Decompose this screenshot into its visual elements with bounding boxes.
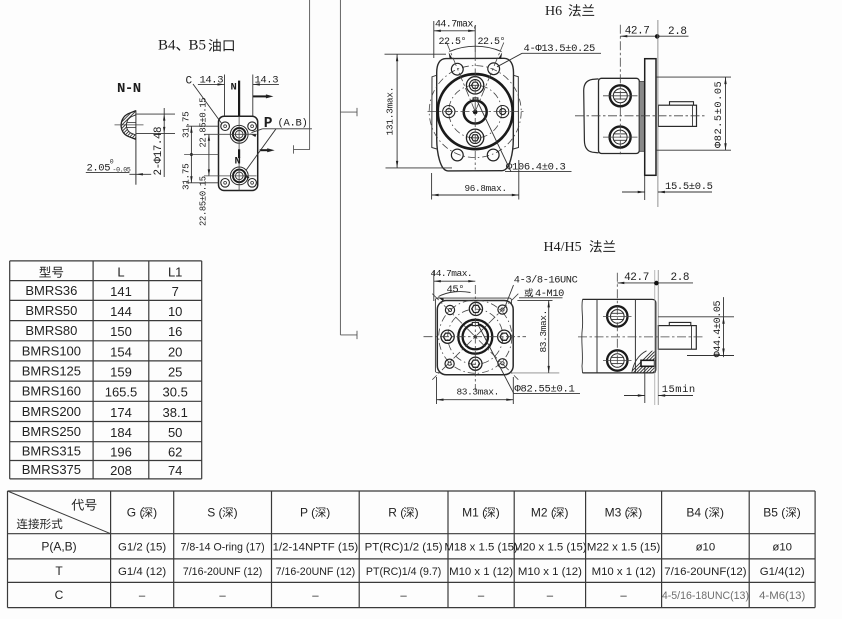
H6 side: top port bbox=[610, 85, 631, 106]
extension lines 14.3 bbox=[224, 75, 226, 117]
svg-text:–: – bbox=[620, 590, 627, 602]
H4/H5 right plug bbox=[498, 330, 511, 343]
svg-text:Φ82.5±0.05: Φ82.5±0.05 bbox=[713, 81, 725, 148]
svg-text:45°: 45° bbox=[447, 284, 465, 296]
svg-text:25: 25 bbox=[168, 365, 182, 380]
connector line V1 bbox=[294, 0, 310, 149]
section line N (middle) bbox=[238, 149, 240, 158]
svg-text:ø10: ø10 bbox=[772, 542, 792, 554]
H6 side: flange plate bbox=[645, 59, 656, 176]
H6 bolt hole 4 dia13.5 bbox=[487, 149, 499, 161]
svg-text:BMRS315: BMRS315 bbox=[22, 444, 81, 459]
H6 centerline vertical bbox=[474, 52, 476, 170]
svg-text:22.85±0.15: 22.85±0.15 bbox=[198, 98, 208, 148]
flange bolt hole top-left bbox=[221, 122, 230, 131]
H6 bolt circle (dashed) bbox=[429, 66, 521, 158]
svg-text:96.8max.: 96.8max. bbox=[465, 183, 507, 194]
V2 tick lower bbox=[340, 334, 357, 336]
svg-text:–: – bbox=[478, 590, 485, 602]
svg-text:208: 208 bbox=[110, 463, 132, 478]
N-N inner bore bbox=[126, 115, 135, 135]
H4/H5 corner bolt hole 2 bbox=[498, 305, 507, 314]
H6 22.5deg radial lines bbox=[447, 43, 476, 112]
svg-text:4-M6(13): 4-M6(13) bbox=[759, 590, 805, 602]
svg-text:(A.B): (A.B) bbox=[278, 118, 308, 130]
svg-text:10: 10 bbox=[168, 304, 182, 319]
svg-text:BMRS375: BMRS375 bbox=[22, 462, 81, 477]
leader to corner hole bbox=[505, 285, 514, 308]
svg-text:P (: P ( bbox=[300, 506, 315, 520]
svg-text:N-N: N-N bbox=[117, 81, 141, 97]
svg-text:): ) bbox=[326, 506, 330, 520]
H4/H5 centerlines bbox=[474, 285, 476, 391]
svg-text:15min: 15min bbox=[662, 384, 696, 396]
svg-text:2.8: 2.8 bbox=[671, 272, 690, 284]
H4/H5 side: centerline bbox=[578, 336, 704, 338]
H4/H5 shaft key bbox=[472, 322, 478, 325]
svg-text:141: 141 bbox=[110, 284, 132, 299]
H4/H5 gray ext lines bbox=[654, 270, 656, 405]
svg-text:20: 20 bbox=[168, 344, 182, 359]
H4/H5 pilot boss dia82.55 (bold) bbox=[458, 320, 492, 354]
section view arrow middle bbox=[260, 149, 269, 151]
svg-text:BMRS250: BMRS250 bbox=[22, 424, 81, 439]
svg-text:M1 (: M1 ( bbox=[462, 506, 486, 520]
leader to upper port bbox=[252, 129, 263, 133]
svg-text:31.75: 31.75 bbox=[181, 164, 192, 190]
svg-text:196: 196 bbox=[110, 445, 132, 460]
svg-text:): ) bbox=[638, 506, 642, 520]
port flange outline bbox=[219, 116, 258, 190]
svg-text:G (: G ( bbox=[127, 506, 144, 520]
H4/H5 side: shaft bbox=[658, 326, 696, 350]
svg-text:74: 74 bbox=[168, 463, 182, 478]
extension lines left bbox=[186, 125, 219, 127]
svg-text:G1/4(12): G1/4(12) bbox=[760, 566, 805, 578]
svg-text:N: N bbox=[230, 82, 236, 94]
svg-text:–: – bbox=[219, 590, 226, 602]
H6 bolt hole 1 dia13.5 bbox=[451, 63, 463, 75]
svg-text:M10 x 1 (12): M10 x 1 (12) bbox=[592, 566, 656, 578]
H4/H5 left plug bbox=[441, 330, 454, 343]
H6 side: horizontal centerline bbox=[575, 115, 707, 117]
dim line 22.85 chain bbox=[208, 134, 210, 176]
H6 bottom port plug bbox=[466, 129, 483, 146]
svg-text:M10 x 1 (12): M10 x 1 (12) bbox=[518, 566, 582, 578]
svg-text:H6: H6 bbox=[545, 4, 562, 19]
svg-text:38.1: 38.1 bbox=[163, 405, 188, 420]
H4/H5 side: shaft key bbox=[669, 322, 691, 325]
H6 extension line gray bbox=[657, 20, 659, 207]
H6 side: shaft key bbox=[670, 102, 694, 106]
svg-text:BMRS200: BMRS200 bbox=[22, 404, 81, 419]
H4/H5 side: bottom port bbox=[607, 350, 627, 370]
svg-text:): ) bbox=[234, 506, 238, 520]
H4/H5 bolt circle dashed bbox=[439, 300, 512, 373]
svg-text:M18 x 1.5 (15): M18 x 1.5 (15) bbox=[444, 542, 518, 554]
svg-text:159: 159 bbox=[110, 365, 132, 380]
H6 pilot circle dia 82.5 (bold) bbox=[438, 74, 513, 149]
H4/H5 side: internal lines bbox=[596, 299, 598, 373]
B4/B5 oil port section bbox=[86, 38, 312, 227]
H4/H5 side: body outline bbox=[583, 299, 656, 373]
N-N plug slot lines bbox=[127, 122, 136, 124]
dim line 31.75 chain bbox=[190, 126, 192, 183]
section view arrow top bbox=[253, 95, 267, 97]
svg-text:22.5°: 22.5° bbox=[439, 36, 467, 48]
svg-text:16: 16 bbox=[168, 324, 182, 339]
H4/H5 corner bolt hole 4 bbox=[498, 359, 507, 368]
H6 front: side tabs bbox=[432, 75, 437, 149]
svg-text:B5: B5 bbox=[189, 38, 207, 54]
H4/H5 side: top port bbox=[607, 306, 627, 326]
H4/H5 45deg diagonals bbox=[432, 294, 518, 380]
svg-text:BMRS36: BMRS36 bbox=[25, 283, 77, 298]
H6 shaft circle (bold) bbox=[464, 101, 487, 124]
H4/H5 front: body behind bbox=[435, 298, 511, 373]
svg-text:BMRS50: BMRS50 bbox=[25, 303, 77, 318]
svg-text:165.5: 165.5 bbox=[105, 385, 138, 400]
H4/H5 front: square flange bbox=[437, 301, 513, 375]
H4/H5 side: port ticks bbox=[603, 315, 632, 317]
H4/H5 flange section bbox=[424, 240, 735, 405]
svg-text:7/16-20UNF (12): 7/16-20UNF (12) bbox=[276, 566, 355, 578]
svg-text:): ) bbox=[720, 506, 724, 520]
H4/H5 side: B4 port in section bbox=[641, 360, 655, 366]
svg-text:G1/4 (12): G1/4 (12) bbox=[118, 566, 166, 578]
svg-text:G1/2 (15): G1/2 (15) bbox=[118, 542, 166, 554]
H6 front: body outline bbox=[437, 58, 514, 171]
dim 2-dia17.48 bbox=[136, 113, 175, 115]
svg-text:–: – bbox=[400, 590, 407, 602]
svg-text:B4: B4 bbox=[158, 38, 176, 54]
svg-text:4-3/8-16UNC: 4-3/8-16UNC bbox=[514, 274, 578, 286]
flange bolt hole top-right bbox=[248, 122, 257, 131]
svg-text:H4/H5: H4/H5 bbox=[544, 240, 582, 255]
svg-text:B4 (: B4 ( bbox=[686, 506, 708, 520]
svg-text:–: – bbox=[547, 590, 554, 602]
svg-text:): ) bbox=[797, 506, 801, 520]
center mark bbox=[190, 153, 193, 156]
H6 left hole bbox=[443, 106, 455, 118]
H6 side: rear cap bbox=[584, 79, 599, 153]
svg-text:31.75: 31.75 bbox=[181, 112, 192, 138]
H4/H5 top plug bbox=[469, 302, 482, 315]
H6 shaft center dot bbox=[473, 110, 478, 115]
svg-text:4-5/16-18UNC(13): 4-5/16-18UNC(13) bbox=[662, 590, 749, 602]
N-N stem line bbox=[135, 110, 137, 184]
H6 side: spacer strip bbox=[639, 82, 644, 152]
svg-text:154: 154 bbox=[110, 344, 132, 359]
H6 bolt hole 3 dia13.5 bbox=[451, 149, 463, 161]
svg-text:BMRS160: BMRS160 bbox=[22, 384, 81, 399]
H6 inner feature circle (dashed) bbox=[449, 85, 502, 138]
H6 shaft key bbox=[473, 98, 478, 101]
svg-text:7: 7 bbox=[172, 284, 179, 299]
svg-text:): ) bbox=[496, 506, 500, 520]
svg-text:83.3max.: 83.3max. bbox=[538, 310, 549, 352]
svg-text:M3 (: M3 ( bbox=[605, 506, 629, 520]
H4/H5 shaft circle (bold) bbox=[463, 324, 488, 349]
svg-text:144: 144 bbox=[110, 304, 132, 319]
connector line V2 bbox=[339, 0, 341, 335]
svg-text:131.3max.: 131.3max. bbox=[385, 87, 396, 136]
svg-text:0: 0 bbox=[110, 159, 114, 166]
flange bolt hole bottom-left bbox=[221, 179, 230, 188]
svg-text:M20 x 1.5 (15): M20 x 1.5 (15) bbox=[513, 542, 587, 554]
svg-text:174: 174 bbox=[110, 405, 132, 420]
svg-text:L1: L1 bbox=[168, 265, 182, 280]
H6 top port plug bbox=[466, 77, 483, 94]
svg-text:C: C bbox=[55, 588, 64, 602]
svg-text:): ) bbox=[153, 506, 157, 520]
H6 dim dia82.5 bbox=[656, 76, 731, 78]
svg-text:R (: R ( bbox=[388, 506, 404, 520]
svg-text:): ) bbox=[415, 506, 419, 520]
svg-text:P: P bbox=[264, 116, 273, 132]
svg-text:BMRS100: BMRS100 bbox=[22, 343, 81, 358]
svg-text:15.5±0.5: 15.5±0.5 bbox=[665, 181, 713, 193]
N-N port cross-section outline bbox=[121, 111, 136, 140]
H6 flange section bbox=[385, 4, 732, 207]
svg-text:42.7: 42.7 bbox=[624, 272, 649, 284]
port A (upper) bbox=[230, 125, 248, 143]
svg-text:–: – bbox=[312, 590, 319, 602]
svg-text:P(A,B): P(A,B) bbox=[41, 540, 76, 554]
H6 side: bottom port bbox=[610, 127, 631, 148]
flange bolt hole bottom-right bbox=[248, 179, 257, 188]
svg-text:7/16-20UNF(12): 7/16-20UNF(12) bbox=[664, 566, 747, 578]
leader to lower port bbox=[246, 129, 276, 171]
model dimension table bbox=[10, 261, 202, 479]
svg-text:M2 (: M2 ( bbox=[531, 506, 555, 520]
H6 right hole bbox=[497, 106, 509, 118]
H6 side: body bbox=[599, 78, 640, 153]
svg-text:83.3max.: 83.3max. bbox=[457, 386, 499, 397]
port connection table bbox=[8, 491, 816, 608]
svg-text:PT(RC)1/2 (15): PT(RC)1/2 (15) bbox=[365, 542, 443, 554]
svg-text:T: T bbox=[55, 564, 63, 578]
flange vertical centerline bbox=[238, 116, 240, 190]
port B (lower) bbox=[230, 167, 248, 185]
H4/H5 center dot bbox=[474, 335, 477, 338]
V2 tick upper bbox=[340, 111, 357, 113]
svg-text:–: – bbox=[139, 590, 146, 602]
svg-text:44.7max,: 44.7max, bbox=[435, 20, 478, 31]
22.5 angle arc bbox=[449, 46, 501, 51]
svg-text:184: 184 bbox=[110, 425, 132, 440]
svg-text:7/16-20UNF (12): 7/16-20UNF (12) bbox=[183, 566, 262, 578]
H4/H5 dim dia44.4 bbox=[658, 316, 734, 318]
svg-text:30.5: 30.5 bbox=[163, 385, 188, 400]
svg-text:S (: S ( bbox=[207, 506, 222, 520]
H4/H5 bottom plug bbox=[469, 357, 482, 370]
svg-text:2-Φ17.48: 2-Φ17.48 bbox=[153, 127, 165, 176]
H6 side: port center ticks bbox=[603, 95, 638, 97]
H6 bolt hole 2 dia13.5 bbox=[488, 63, 500, 75]
H4/H5 corner bolt hole 1 bbox=[445, 305, 454, 314]
svg-text:62: 62 bbox=[168, 445, 182, 460]
H6 centerline horizontal bbox=[428, 111, 524, 113]
svg-text:7/8-14 O-ring (17): 7/8-14 O-ring (17) bbox=[180, 542, 264, 554]
svg-text:50: 50 bbox=[168, 425, 182, 440]
H4/H5 side: rear break line bbox=[581, 299, 584, 373]
svg-text:M22 x 1.5 (15): M22 x 1.5 (15) bbox=[587, 542, 661, 554]
svg-text:C: C bbox=[186, 76, 193, 88]
header diagonal split bbox=[8, 491, 111, 534]
svg-text:BMRS125: BMRS125 bbox=[22, 364, 81, 379]
H6 side: shaft bbox=[658, 105, 696, 126]
H4/H5 corner bolt hole 3 bbox=[445, 359, 454, 368]
svg-text:PT(RC)1/4 (9.7): PT(RC)1/4 (9.7) bbox=[366, 566, 441, 578]
svg-text:42.7: 42.7 bbox=[625, 26, 650, 38]
svg-text:1/2-14NPTF (15): 1/2-14NPTF (15) bbox=[273, 542, 359, 554]
svg-text:M10 x 1 (12): M10 x 1 (12) bbox=[449, 566, 513, 578]
svg-text:L: L bbox=[117, 265, 124, 280]
svg-text:Φ44.4±0.05: Φ44.4±0.05 bbox=[713, 300, 724, 357]
N-N centerline bbox=[115, 124, 144, 126]
svg-text:): ) bbox=[565, 506, 569, 520]
H6 side: port centerline vertical bbox=[619, 25, 621, 157]
svg-text:B5 (: B5 ( bbox=[763, 506, 785, 520]
leader from C to bolt hole bbox=[193, 84, 222, 124]
svg-text:150: 150 bbox=[110, 324, 132, 339]
svg-text:44.7max.: 44.7max. bbox=[431, 268, 473, 279]
svg-text:22.85±0.15: 22.85±0.15 bbox=[198, 176, 208, 226]
svg-text:N: N bbox=[235, 156, 241, 168]
svg-text:BMRS80: BMRS80 bbox=[25, 323, 77, 338]
section line N (top) bbox=[238, 81, 240, 116]
svg-text:ø10: ø10 bbox=[696, 542, 716, 554]
